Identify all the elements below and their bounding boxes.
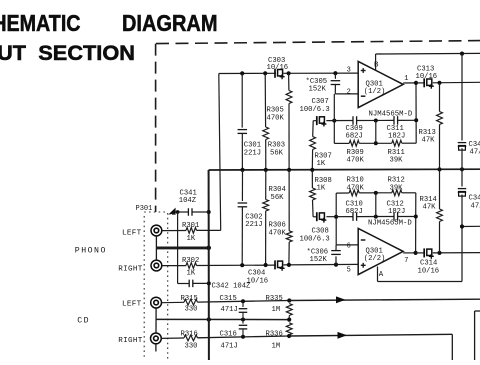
- node res rail mid ch1: [374, 141, 378, 145]
- label CD: [77, 317, 90, 326]
- resistor R313 lead top: [439, 83, 441, 112]
- svg-text:(2/2): (2/2): [364, 255, 386, 263]
- label C305: [306, 78, 328, 94]
- svg-text:R303: R303: [268, 142, 285, 150]
- capacitor C306 lead bottom: [335, 256, 337, 264]
- svg-text:B: B: [374, 62, 379, 70]
- resistor R314 lead top: [439, 169, 441, 209]
- wire P301 pin row: [176, 211, 209, 213]
- wire feedback res rail ch2 a: [336, 192, 349, 194]
- wire feedback mid link ch1: [375, 121, 377, 144]
- wire feedback cap rail ch2 d: [398, 216, 416, 218]
- capacitor C302: [238, 203, 248, 207]
- capacitor C306: [331, 251, 341, 255]
- resistor R307: [310, 137, 316, 150]
- svg-text:104Z: 104Z: [179, 197, 197, 205]
- label R312: [388, 177, 405, 193]
- capacitor C305 lead bottom: [334, 85, 336, 94]
- svg-text:1K: 1K: [317, 185, 326, 193]
- arrow cd right output: [338, 332, 348, 339]
- svg-text:152K: 152K: [310, 256, 328, 264]
- node supply B at decoupling: [460, 52, 464, 56]
- input jack cd LEFT: [151, 297, 162, 308]
- capacitor C316: [239, 325, 248, 329]
- wire pin6 riser to res rail: [335, 193, 337, 245]
- wire feedback res rail ch2 c: [402, 192, 416, 194]
- pin number 2: [347, 88, 351, 96]
- label C309: [346, 125, 363, 141]
- label R314: [420, 196, 437, 212]
- resistor R336: [286, 323, 292, 335]
- node ground bus at C342 row: [207, 281, 211, 285]
- svg-text:C307: C307: [312, 98, 329, 106]
- svg-text:6: 6: [347, 242, 351, 250]
- resistor R307 lead top: [312, 121, 315, 137]
- svg-text:152K: 152K: [309, 86, 327, 94]
- svg-text:R336: R336: [266, 330, 283, 338]
- svg-text:DIAGRAM: DIAGRAM: [122, 10, 218, 36]
- wire cd right jack to R316: [161, 337, 184, 339]
- resistor R306 lead top: [288, 170, 290, 231]
- svg-text:39K: 39K: [390, 156, 404, 164]
- label Q301 (1/2): [364, 80, 386, 96]
- label B: [374, 62, 379, 70]
- wire feedback right riser ch2: [415, 193, 417, 253]
- resistor R303: [263, 127, 269, 140]
- svg-text:RIGHT: RIGHT: [118, 265, 142, 273]
- svg-text:7: 7: [404, 257, 408, 265]
- pin number 7: [404, 257, 408, 265]
- wire feedback res rail ch1 c: [402, 142, 416, 144]
- label R311: [388, 149, 405, 165]
- node mid rail at supply caps: [460, 167, 464, 171]
- svg-text:R306: R306: [269, 222, 286, 230]
- resistor R311: [392, 140, 402, 146]
- label C343 (clipped): [469, 141, 480, 157]
- resistor R306: [286, 231, 292, 242]
- pin number 5: [347, 266, 351, 274]
- svg-text:R310: R310: [347, 177, 364, 185]
- pin number 3: [347, 66, 351, 74]
- svg-text:R316: R316: [181, 330, 198, 338]
- svg-text:10/16: 10/16: [247, 277, 269, 285]
- wire supply A riser: [461, 195, 463, 282]
- node feedback riser at cap rail ch1: [414, 118, 418, 122]
- wire connector ground drop: [177, 212, 179, 284]
- node phono right at R306: [287, 263, 291, 267]
- node phono ground bus junction: [206, 246, 211, 251]
- wire feedback res rail ch2 b: [359, 192, 392, 194]
- wire mid ground rail: [209, 168, 480, 171]
- label PHONO: [75, 247, 107, 256]
- capacitor C309: [353, 116, 357, 125]
- capacitor C315 lead bottom: [242, 312, 244, 319]
- capacitor C306 lead top: [335, 245, 337, 251]
- op-amp U1 plus sign: [361, 68, 366, 73]
- op-amp U1 minus sign: [361, 95, 366, 97]
- wire C343 to ground rail: [461, 148, 463, 169]
- node cd right at C316: [241, 335, 245, 339]
- svg-text:LEFT: LEFT: [122, 300, 142, 308]
- capacitor C312: [394, 212, 398, 221]
- resistor R307 lead bottom: [311, 150, 313, 170]
- wire feedback cap rail ch1 c: [357, 119, 394, 121]
- svg-text:INPUT: INPUT: [0, 42, 26, 65]
- svg-text:R315: R315: [181, 295, 198, 303]
- label C304: [247, 270, 269, 286]
- label R305: [267, 107, 285, 123]
- wire op1 output a: [403, 83, 416, 85]
- svg-text:47/: 47/: [470, 149, 480, 157]
- svg-text:1: 1: [404, 75, 408, 83]
- label NJM4565M-D (ch1): [369, 110, 413, 118]
- input jack phono RIGHT: [151, 260, 162, 271]
- node pin2 at feedback rail: [332, 119, 336, 123]
- svg-text:C342 104Z: C342 104Z: [212, 283, 252, 291]
- wire cd ground rail: [156, 318, 289, 320]
- wire op1 inverting input (pin2): [335, 93, 358, 95]
- wire op1 output b: [416, 82, 424, 84]
- wire top main (right part): [284, 72, 359, 74]
- wire op1 output c: [433, 81, 480, 84]
- svg-text:3: 3: [347, 66, 351, 74]
- label R309: [347, 149, 365, 165]
- label C313: [416, 66, 438, 82]
- capacitor C305: [331, 81, 341, 85]
- svg-text:1M: 1M: [272, 306, 281, 314]
- node feedback riser at cap rail ch2: [414, 215, 418, 219]
- wire jack ground link cd: [155, 308, 157, 332]
- resistor R304 lead bottom: [265, 211, 267, 265]
- svg-text:1M: 1M: [272, 343, 281, 351]
- svg-text:1K: 1K: [187, 235, 196, 243]
- svg-text:R301: R301: [182, 222, 199, 230]
- svg-text:PHONO: PHONO: [75, 247, 107, 256]
- op-amp U2 minus sign: [361, 239, 366, 241]
- svg-text:2: 2: [347, 88, 351, 96]
- wire op2 inverting input (pin6): [336, 244, 358, 246]
- resistor R335: [286, 304, 292, 316]
- label C306: [307, 249, 329, 265]
- node cd ground at bus: [207, 317, 211, 321]
- capacitor C310: [353, 212, 357, 221]
- label R307: [315, 153, 332, 169]
- op-amp U2 plus sign: [361, 263, 366, 268]
- wire feedback cap rail ch1 a: [313, 120, 316, 122]
- wire phono right row a: [197, 264, 277, 266]
- label R308: [315, 177, 332, 193]
- capacitor C341: [188, 208, 192, 216]
- svg-text:R335: R335: [266, 295, 283, 303]
- label LEFT (phono): [122, 229, 142, 237]
- svg-text:10/16: 10/16: [267, 64, 289, 72]
- node supply A junction: [460, 224, 464, 228]
- resistor R313: [437, 112, 443, 125]
- svg-text:R304: R304: [269, 186, 286, 194]
- svg-text:C34: C34: [469, 195, 480, 203]
- node cd ground rail end: [287, 318, 291, 322]
- svg-text:C301: C301: [244, 142, 261, 150]
- dashed section border top edge: [156, 41, 480, 44]
- input jack phono LEFT: [151, 225, 162, 236]
- svg-text:47/: 47/: [471, 203, 480, 211]
- svg-text:47K: 47K: [422, 137, 436, 145]
- node pin6 at feedback rail: [334, 215, 338, 219]
- svg-text:A: A: [379, 271, 384, 279]
- node phono right at C302: [240, 263, 244, 267]
- node cd left at R335: [287, 298, 291, 302]
- wire pin2 drop to res rail: [333, 94, 335, 143]
- wire feedback cap rail ch2 a: [313, 216, 316, 218]
- connector P301 dashed outline right: [167, 213, 169, 360]
- wire phono left riser: [219, 74, 221, 231]
- capacitor C342: [189, 280, 193, 288]
- resistor R305 lead bottom: [288, 104, 290, 170]
- svg-text:RIGHT: RIGHT: [118, 337, 142, 345]
- wire feedback cap rail ch2 c: [357, 216, 394, 218]
- wire feedback cap rail ch1 b: [326, 120, 352, 122]
- svg-text:NJM4565M-D: NJM4565M-D: [368, 219, 412, 227]
- block outline bottom right: [475, 311, 480, 360]
- capacitor C315 lead top: [242, 301, 244, 307]
- svg-text:56K: 56K: [270, 150, 284, 158]
- wire phono ground bus (thick): [156, 246, 208, 249]
- wire feedback cap rail ch1 d: [398, 119, 417, 121]
- svg-text:R312: R312: [388, 177, 405, 185]
- capacitor C314 (series electrolytic): [424, 248, 434, 258]
- svg-text:CD: CD: [77, 317, 90, 326]
- capacitor C316 lead top: [242, 320, 244, 324]
- capacitor C305 lead top: [334, 73, 336, 79]
- label C341: [179, 190, 197, 206]
- wire phono left jack to R301: [162, 230, 186, 232]
- label R304: [269, 186, 286, 202]
- svg-text:182J: 182J: [388, 208, 405, 216]
- svg-text:47K: 47K: [423, 204, 437, 212]
- node cap rail mid ch1: [374, 119, 378, 123]
- op-amp U1 Q301(1/2) triangle: [358, 61, 403, 107]
- wire supply A exit: [462, 225, 480, 227]
- wire cd left jack to R315: [162, 301, 184, 303]
- wire phono right row b: [284, 263, 359, 266]
- node cap rail mid ch2: [374, 215, 378, 219]
- resistor R304: [263, 200, 269, 212]
- label R316: [181, 330, 198, 350]
- label R310: [347, 177, 365, 193]
- capacitor C311: [394, 116, 398, 125]
- svg-text:471J: 471J: [221, 343, 238, 351]
- label R315: [181, 295, 198, 314]
- label RIGHT (cd): [118, 337, 142, 345]
- wire jack ground stub below cd right: [155, 344, 157, 352]
- capacitor C343 (decoupling): [458, 143, 467, 151]
- svg-text:5: 5: [347, 266, 351, 274]
- capacitor C301: [238, 130, 248, 134]
- title text INPUT SECTION (clipped): [0, 42, 135, 65]
- svg-text:C314: C314: [420, 260, 437, 268]
- svg-text:C304: C304: [248, 270, 265, 278]
- node phono right at C306: [334, 263, 338, 267]
- resistor R308 lead top: [311, 170, 313, 188]
- resistor R305: [286, 91, 292, 104]
- label C301: [244, 142, 261, 158]
- dashed section border left edge: [155, 44, 157, 212]
- svg-text:SECTION: SECTION: [38, 42, 135, 65]
- wire R301 to corner: [197, 229, 221, 231]
- svg-text:1K: 1K: [187, 270, 196, 278]
- svg-text:56K: 56K: [271, 194, 285, 202]
- svg-text:R305: R305: [267, 107, 284, 115]
- svg-text:10/16: 10/16: [418, 267, 440, 275]
- capacitor C303 (series electrolytic): [275, 69, 285, 79]
- capacitor C302 lead bottom: [241, 207, 243, 265]
- node mid rail at C302: [240, 168, 244, 172]
- arrow cd left output: [336, 296, 346, 303]
- input jack cd RIGHT: [151, 333, 162, 344]
- wire jack ground link phono: [155, 236, 157, 260]
- label NJM4565M-D (ch2): [368, 219, 412, 227]
- capacitor C308 (series electrolytic): [317, 212, 327, 222]
- svg-text:39K: 39K: [390, 184, 404, 192]
- label R306: [269, 222, 287, 238]
- capacitor C301 lead bottom: [241, 133, 243, 170]
- label C303: [267, 57, 289, 72]
- node output1 at feedback: [414, 81, 418, 85]
- node P301 row branch: [176, 210, 180, 214]
- resistor R301: [186, 228, 197, 234]
- label C312: [387, 201, 406, 217]
- wire feedback res rail ch1 a: [334, 142, 349, 144]
- svg-text:471J: 471J: [221, 306, 238, 314]
- label C311: [387, 125, 406, 141]
- label C307: [300, 98, 330, 114]
- svg-text:470K: 470K: [347, 184, 365, 192]
- node cd left at C315: [241, 299, 245, 303]
- node cd right at R336: [287, 334, 291, 338]
- wire cd left row: [198, 301, 290, 303]
- svg-text:1K: 1K: [317, 160, 326, 168]
- label A: [379, 271, 384, 279]
- svg-text:100/6.3: 100/6.3: [300, 106, 330, 114]
- svg-text:R302: R302: [182, 257, 199, 265]
- svg-text:682J: 682J: [346, 208, 363, 216]
- svg-text:C316: C316: [220, 330, 237, 338]
- resistor R308: [310, 188, 316, 200]
- label C302: [245, 213, 262, 229]
- resistor R303 lead top: [264, 73, 266, 127]
- wire feedback mid link ch2: [375, 193, 377, 217]
- label C344 (clipped): [469, 195, 480, 211]
- label C342 104Z: [212, 283, 252, 291]
- op-amp U2 Q301(2/2) triangle: [358, 228, 403, 274]
- node res rail mid ch2: [374, 191, 378, 195]
- label C315: [220, 295, 238, 314]
- svg-text:C308: C308: [312, 227, 329, 235]
- wire op1 V+ stub: [375, 54, 377, 70]
- resistor R308 lead bottom: [312, 200, 315, 217]
- label LEFT (cd): [122, 300, 142, 308]
- wire cd right output arrow line: [289, 334, 452, 360]
- wire op2 output a: [403, 251, 416, 253]
- svg-text:221J: 221J: [244, 150, 261, 158]
- node mid rail at R307/R308: [310, 168, 314, 172]
- wire feedback right riser ch1: [415, 83, 417, 143]
- node top wire at C301: [240, 71, 244, 75]
- wire top main (left part): [219, 72, 276, 74]
- svg-text:10/16: 10/16: [416, 73, 438, 81]
- wire main ground bus vertical: [208, 170, 210, 360]
- label C314: [418, 260, 440, 276]
- capacitor C316 lead bottom: [242, 329, 244, 337]
- label R303: [268, 142, 285, 158]
- wire feedback res rail ch1 b: [359, 142, 392, 144]
- svg-text:LEFT: LEFT: [122, 229, 142, 237]
- title text SCHEMATIC DIAGRAM (clipped): [0, 10, 218, 36]
- capacitor C313 (series electrolytic): [424, 78, 434, 88]
- wire supply A bottom run: [378, 281, 463, 283]
- capacitor C301 lead top: [241, 73, 243, 127]
- resistor R312: [392, 190, 402, 196]
- wire op2 output c: [433, 252, 480, 254]
- capacitor C307 (series electrolytic): [317, 116, 327, 126]
- node top wire at R303: [263, 71, 267, 75]
- wire C342 row: [178, 282, 209, 284]
- connector P301 dashed outline top: [144, 211, 168, 213]
- node cd ground at C315/C316: [241, 318, 245, 322]
- connector P301 pin symbol: [168, 208, 175, 215]
- connector P301 dashed outline left: [143, 216, 145, 360]
- label Q301 (2/2): [364, 247, 386, 262]
- node output2 at R314: [437, 251, 441, 255]
- pin number 1: [404, 75, 408, 83]
- resistor R315: [184, 299, 198, 305]
- resistor R313 lead bottom: [439, 125, 441, 170]
- wire cd left output arrow line: [289, 299, 480, 300]
- node mid rail at R304: [264, 168, 268, 172]
- node top wire at C305: [333, 71, 337, 75]
- svg-text:221J: 221J: [245, 221, 262, 229]
- wire feedback cap rail ch2 b: [326, 216, 352, 218]
- node ground bus at P301 row: [207, 210, 211, 214]
- svg-text:470K: 470K: [267, 115, 285, 123]
- wire op2 V- stub: [377, 267, 379, 282]
- resistor R305 lead top: [288, 73, 290, 90]
- connector P301 label: [136, 205, 153, 213]
- svg-text:SCHEMATIC: SCHEMATIC: [0, 10, 81, 36]
- resistor R304 lead top: [265, 170, 267, 200]
- resistor R316: [184, 335, 198, 341]
- label C308: [300, 227, 330, 243]
- pin number 6: [347, 242, 351, 250]
- capacitor C304 (series electrolytic): [275, 260, 285, 270]
- node output1 at R313: [437, 81, 441, 85]
- node phono right at R304: [264, 263, 268, 267]
- svg-text:100/6.3: 100/6.3: [300, 235, 330, 243]
- node output2 at feedback: [414, 251, 418, 255]
- label R301: [182, 222, 199, 243]
- wire ground rail to C344: [461, 169, 463, 186]
- node mid rail at R313/R314: [437, 167, 441, 171]
- svg-text:470K: 470K: [347, 156, 365, 164]
- resistor R302: [186, 263, 197, 269]
- resistor R310: [349, 190, 359, 196]
- label R313: [419, 129, 436, 145]
- label C316: [220, 330, 238, 350]
- svg-text:C315: C315: [220, 295, 237, 303]
- label RIGHT (phono): [118, 265, 142, 273]
- svg-text:330: 330: [185, 306, 198, 314]
- wire cd right row: [198, 336, 290, 338]
